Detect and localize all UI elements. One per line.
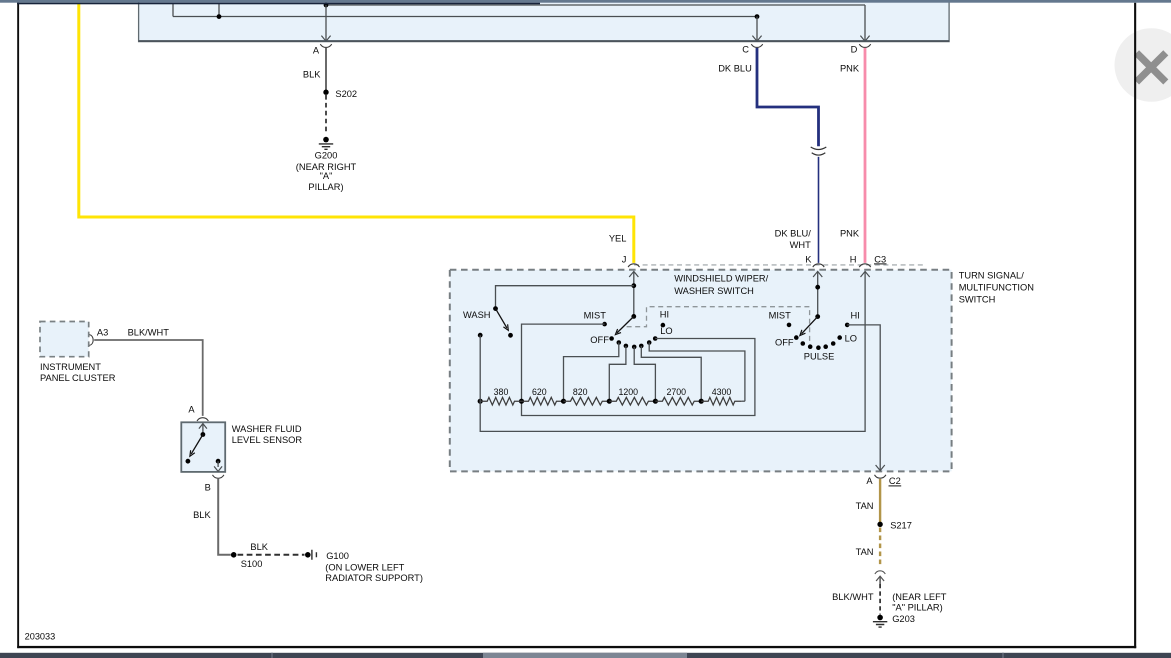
svg-text:TAN: TAN — [856, 501, 874, 511]
svg-text:B: B — [205, 483, 211, 493]
svg-text:BLK: BLK — [303, 70, 321, 80]
sensor blade — [191, 435, 203, 454]
pulse contact dot p3 — [816, 345, 821, 350]
junction dot row x701 — [699, 399, 704, 404]
arrowhead pin C — [752, 36, 761, 42]
junction dot row x609 — [607, 399, 612, 404]
splice S202 — [323, 90, 328, 95]
splice S217 — [877, 522, 882, 527]
sensor exit arrow — [214, 466, 222, 471]
net c5 to row end — [649, 343, 745, 402]
wire wash branch — [496, 286, 634, 309]
resistor 380 — [480, 397, 521, 405]
pulse contact dot p2 — [808, 344, 813, 349]
connector cup K — [813, 264, 824, 267]
inner dashed box (pulse module) — [627, 307, 810, 349]
svg-text:2700: 2700 — [667, 387, 687, 397]
connector cup sensor A — [197, 418, 208, 421]
wire: top box internal vertical 2 — [218, 4, 220, 17]
dot K feed upper — [815, 285, 820, 290]
svg-text:HI: HI — [851, 310, 860, 320]
wire K feed vertical — [817, 271, 819, 316]
sensor contact dot right — [216, 459, 221, 464]
wire: top box horizontal feed to D — [326, 4, 865, 6]
wire: top box internal vertical 1 — [172, 4, 174, 17]
svg-text:S202: S202 — [335, 89, 357, 99]
contact MIST dot (right) — [787, 323, 792, 328]
sensor pivot dot — [201, 432, 206, 437]
splice S100 — [231, 552, 237, 558]
junction dot row x521 — [519, 399, 524, 404]
wire BLK/WHT dashed — [879, 584, 881, 615]
svg-text:RADIATOR SUPPORT): RADIATOR SUPPORT) — [325, 573, 423, 583]
inline connector stem — [879, 576, 881, 584]
junction dot row x655 — [653, 399, 658, 404]
svg-text:MIST: MIST — [769, 310, 792, 320]
net c3 to row — [634, 347, 655, 401]
close button circle — [1115, 28, 1171, 102]
ground G200 dot — [323, 137, 329, 143]
svg-text:"A" PILLAR): "A" PILLAR) — [892, 603, 943, 613]
wash lower contact dot — [478, 333, 483, 338]
top connector box (cut off) — [139, 0, 950, 42]
svg-text:1200: 1200 — [619, 387, 639, 397]
contact dot c3 — [632, 345, 637, 350]
washer fluid level sensor box — [181, 422, 225, 472]
resistor 2700 — [655, 397, 701, 405]
svg-text:BLK: BLK — [250, 542, 268, 552]
wire YEL — [79, 4, 634, 263]
junction dot on internal horizontal — [217, 14, 222, 19]
close button X icon — [1137, 53, 1166, 82]
svg-text:DK BLU/: DK BLU/ — [775, 229, 812, 239]
arrowhead pin A — [321, 36, 330, 42]
turn signal / multifunction switch box — [450, 270, 952, 472]
svg-text:4300: 4300 — [712, 387, 732, 397]
exit arrowhead A/C2 — [876, 465, 885, 471]
left blade arrowhead — [615, 329, 621, 335]
svg-text:MULTIFUNCTION: MULTIFUNCTION — [959, 283, 1034, 293]
contact OFF dot (right) — [794, 335, 799, 340]
svg-text:620: 620 — [532, 387, 547, 397]
svg-text:TURN SIGNAL/: TURN SIGNAL/ — [959, 271, 1025, 281]
ground G200 bars — [319, 144, 333, 149]
inline connector break arcs on DK BLU wire — [811, 147, 827, 155]
component box bottom edge (cut off above) — [17, 3, 540, 5]
svg-text:LO: LO — [845, 333, 857, 343]
wire: pin A vertical — [325, 5, 327, 41]
svg-text:203033: 203033 — [25, 632, 56, 642]
connector cup H — [859, 264, 870, 267]
inline connector arrow — [876, 576, 884, 581]
svg-text:LEVEL SENSOR: LEVEL SENSOR — [232, 435, 303, 445]
entry arrow J — [629, 271, 638, 277]
wire: pin C vertical — [756, 17, 758, 41]
resistor 1200 — [609, 397, 655, 405]
ground G203 dot — [877, 615, 883, 621]
wash switch pivot dot — [493, 306, 498, 311]
svg-text:INSTRUMENT: INSTRUMENT — [40, 362, 101, 372]
connector C3 dashed body line — [634, 264, 923, 266]
connector cup A3 (right facing) — [90, 335, 94, 346]
svg-text:G200: G200 — [315, 151, 338, 161]
wire BLK/WHT from ipc — [94, 340, 203, 416]
junction dot row left end — [478, 399, 483, 404]
svg-text:LO: LO — [660, 326, 672, 336]
junction dot row x563 — [561, 399, 566, 404]
resistor 820 — [564, 397, 610, 405]
sensor entry stem — [202, 424, 204, 435]
svg-text:HI: HI — [660, 310, 669, 320]
right blade arrowhead — [800, 330, 806, 336]
resistor 4300 — [701, 397, 742, 405]
wire BLK dashed (S202 to G200) — [325, 95, 327, 134]
svg-text:PULSE: PULSE — [804, 351, 835, 361]
pulse contact dot p4 — [823, 344, 828, 349]
net HI to exit A — [847, 325, 880, 470]
net MIST-LO loop — [522, 324, 755, 415]
bottom taskbar separator 2 — [1002, 653, 1004, 658]
svg-text:A: A — [866, 476, 873, 486]
svg-text:WASHER FLUID: WASHER FLUID — [232, 424, 302, 434]
bottom taskbar — [0, 653, 1171, 658]
svg-text:BLK/WHT: BLK/WHT — [832, 592, 874, 602]
wire: top box internal horizontal to C — [173, 16, 757, 18]
svg-text:D: D — [851, 45, 858, 55]
connector cup sensor B — [213, 475, 224, 478]
svg-text:K: K — [805, 254, 812, 264]
svg-text:PILLAR): PILLAR) — [308, 182, 343, 192]
contact HI dot (right) — [845, 323, 850, 328]
contact dot c5 — [647, 340, 652, 345]
svg-text:MIST: MIST — [584, 310, 607, 320]
net c1 to row — [564, 343, 619, 402]
svg-text:BLK: BLK — [193, 510, 211, 520]
connector cup C2 — [875, 475, 886, 478]
svg-text:J: J — [622, 254, 627, 264]
connector cup A — [320, 44, 331, 47]
connector cup C — [751, 44, 762, 47]
wire J feed vertical — [633, 271, 635, 316]
entry arrow H — [861, 271, 870, 277]
wire DK BLU thick — [757, 48, 819, 146]
net c4 to row — [641, 346, 701, 401]
svg-text:DK BLU: DK BLU — [718, 64, 752, 74]
svg-text:820: 820 — [573, 387, 588, 397]
diagram frame bottom border — [17, 646, 1136, 648]
wire: pin D vertical — [864, 5, 866, 41]
inline connector cup (tan to blk/wht) — [875, 571, 885, 574]
wire BLK dashed to G100 — [238, 554, 305, 556]
contact OFF dot (left) — [609, 336, 614, 341]
net H long wire — [480, 271, 865, 431]
wire BLK (sensor B) — [218, 479, 231, 555]
svg-text:S217: S217 — [890, 520, 912, 530]
bottom taskbar separator 1 — [271, 653, 273, 658]
pulse contact dot p5 — [831, 341, 836, 346]
right rotary blade — [802, 317, 818, 334]
wash blade arrowhead — [503, 324, 508, 330]
sensor entry arrow — [199, 424, 207, 429]
diagram frame right border — [1134, 3, 1136, 649]
svg-text:YEL: YEL — [609, 233, 627, 243]
contact dot c1 — [617, 340, 622, 345]
svg-text:C: C — [742, 45, 749, 55]
svg-text:C3: C3 — [874, 254, 886, 264]
sensor contact dot left — [186, 459, 191, 464]
left rotary blade — [617, 316, 634, 333]
underline C3 — [874, 263, 887, 265]
entry arrow K — [813, 271, 822, 277]
svg-text:S100: S100 — [241, 559, 263, 569]
svg-text:TAN: TAN — [856, 547, 874, 557]
contact HI dot (left) — [661, 323, 666, 328]
svg-text:H: H — [850, 254, 857, 264]
svg-text:G100: G100 — [326, 551, 349, 561]
ground G100 bars — [312, 550, 317, 560]
contact LO dot (left) — [653, 336, 658, 341]
contact MIST dot (left) — [602, 322, 607, 327]
svg-text:G203: G203 — [892, 614, 915, 624]
svg-text:OFF: OFF — [590, 335, 609, 345]
contact dot c4 — [639, 344, 644, 349]
resistor 620 — [522, 397, 564, 405]
contact LO dot (right) — [837, 335, 842, 340]
wire row right stub — [742, 400, 745, 402]
pulse contact dot p1 — [801, 341, 806, 346]
svg-text:OFF: OFF — [775, 337, 794, 347]
connector cup D — [859, 44, 870, 47]
right rotary pivot dot — [815, 314, 820, 319]
svg-text:A: A — [313, 45, 320, 55]
wire TAN — [879, 479, 881, 522]
svg-text:A: A — [188, 405, 195, 415]
wire PNK — [864, 48, 867, 263]
sensor exit stem — [217, 461, 219, 467]
ground G100 dot — [305, 552, 311, 558]
connector cup J — [628, 264, 639, 267]
junction dot C — [755, 14, 760, 19]
svg-text:PNK: PNK — [840, 229, 860, 239]
wash switch blade — [496, 309, 507, 328]
net c2 to row — [609, 346, 626, 401]
svg-text:380: 380 — [494, 387, 509, 397]
svg-text:PNK: PNK — [840, 64, 860, 74]
svg-text:WHT: WHT — [790, 240, 811, 250]
diagram frame left border — [17, 3, 19, 648]
svg-text:BLK/WHT: BLK/WHT — [128, 327, 170, 337]
svg-text:A3: A3 — [97, 327, 108, 337]
svg-text:PANEL CLUSTER: PANEL CLUSTER — [40, 373, 116, 383]
top toolbar bar — [0, 0, 1171, 3]
svg-text:SWITCH: SWITCH — [959, 294, 996, 304]
contact dot c2 — [624, 344, 629, 349]
bottom taskbar light segment — [483, 653, 687, 658]
node dot at pin A feed — [324, 3, 329, 8]
instrument panel cluster box — [40, 322, 89, 357]
ground G203 bars — [873, 622, 887, 627]
svg-text:WASHER SWITCH: WASHER SWITCH — [674, 286, 754, 296]
wire TAN dashed — [879, 528, 881, 568]
wire DK BLU/WHT thin — [818, 157, 820, 263]
svg-text:C2: C2 — [889, 476, 901, 486]
svg-text:(ON LOWER LEFT: (ON LOWER LEFT — [325, 562, 404, 572]
junction dot J feed upper — [631, 283, 636, 288]
wire BLK (A to S202) — [325, 48, 327, 90]
svg-text:"A": "A" — [320, 171, 333, 181]
arrowhead pin D — [860, 36, 869, 42]
top connector box bottom border — [139, 40, 950, 42]
svg-text:(NEAR LEFT: (NEAR LEFT — [892, 592, 947, 602]
svg-text:WASH: WASH — [463, 310, 491, 320]
svg-text:WINDSHIELD WIPER/: WINDSHIELD WIPER/ — [674, 274, 768, 284]
wash contact dot — [508, 333, 513, 338]
left rotary pivot dot — [631, 314, 636, 319]
underline C2 — [889, 485, 902, 487]
sensor blade arrowhead — [190, 450, 195, 456]
